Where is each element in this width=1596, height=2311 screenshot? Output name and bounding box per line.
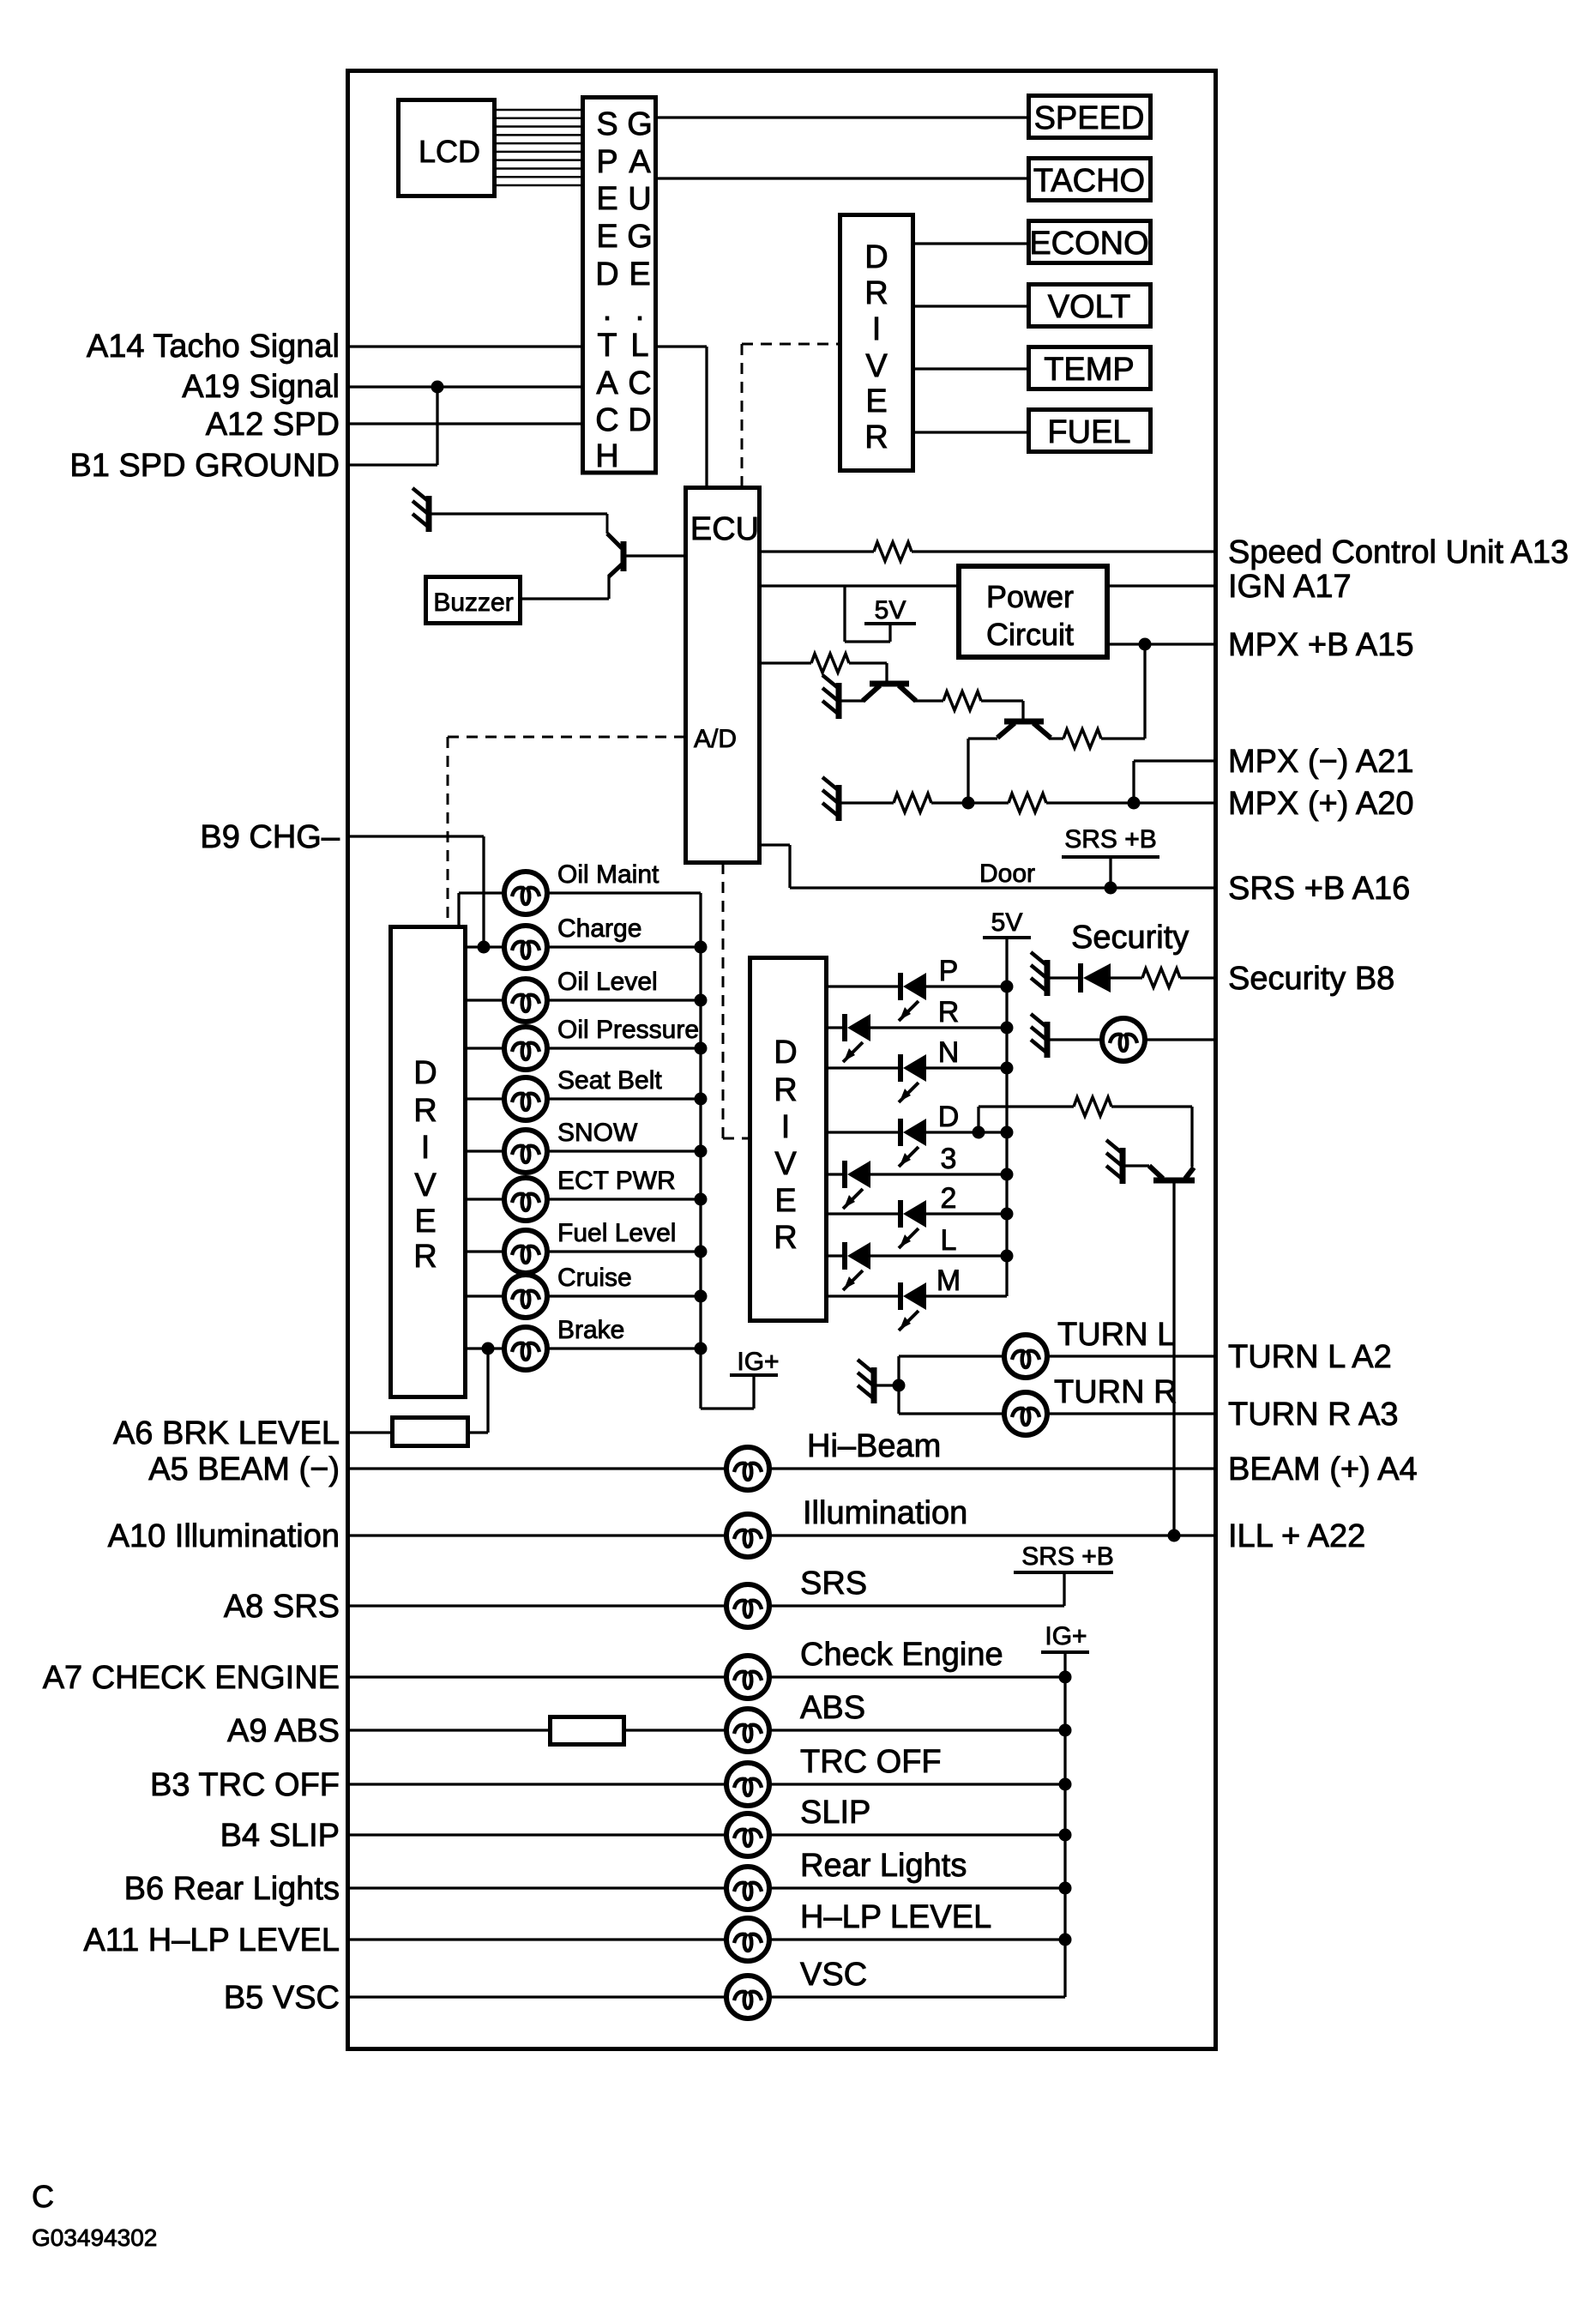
- wire LED L to bus: [870, 1254, 1007, 1257]
- junction A19/B1: [431, 381, 444, 394]
- svg-text:R: R: [864, 275, 888, 311]
- junction SRS +B: [1105, 882, 1117, 895]
- instrument cluster frame: [348, 71, 1216, 2049]
- lamp Hi-Beam: [726, 1447, 769, 1490]
- wire LED P to bus: [926, 985, 1007, 987]
- lamp H–LP LEVEL: [726, 1918, 769, 1961]
- svg-text:B9 CHG–: B9 CHG–: [200, 819, 340, 855]
- junction Oil Level / IG+ bus: [695, 994, 708, 1007]
- junction Oil Pressure / IG+ bus: [695, 1042, 708, 1055]
- svg-text:B3 TRC OFF: B3 TRC OFF: [150, 1767, 340, 1803]
- junction LED R bus: [1001, 1022, 1014, 1035]
- resistor R2: [811, 654, 849, 673]
- dashed wire driver to ECU: [742, 343, 840, 346]
- wire TURN L to frame: [1046, 1355, 1215, 1357]
- wire driver to Fuel Level lamp: [466, 1250, 505, 1252]
- svg-text:Oil Pressure: Oil Pressure: [557, 1016, 699, 1044]
- wire LED R to bus: [870, 1026, 1007, 1029]
- wire gauge to SPEED: [656, 116, 1028, 118]
- svg-text:3: 3: [941, 1143, 957, 1175]
- wire driver to Oil Level lamp: [466, 999, 505, 1001]
- gauge unit SPEED.TACH GAUGE.LCD: [583, 98, 656, 474]
- svg-text:SLIP: SLIP: [800, 1795, 870, 1831]
- junction turn lamp ground: [893, 1379, 906, 1392]
- ribbon cable LCD to gauge: [497, 110, 582, 185]
- lamp TRC OFF: [726, 1763, 769, 1806]
- Buzzer box: [426, 577, 521, 624]
- wire Brake lamp to IG+ bus: [546, 1347, 701, 1349]
- svg-text:Rear Lights: Rear Lights: [800, 1848, 967, 1884]
- wire driver to TEMP: [913, 367, 1028, 370]
- junction SLIP / IG+ bus: [1059, 1829, 1072, 1842]
- svg-text:MPX +B A15: MPX +B A15: [1228, 627, 1414, 663]
- junction Cruise / IG+ bus: [695, 1290, 708, 1303]
- driver IC U1 (gauge driver): [840, 215, 913, 471]
- ground Q2 emitter: [822, 675, 839, 719]
- 5V supply symbol S4: [983, 908, 1031, 938]
- ground Q4 base: [1106, 1140, 1123, 1184]
- wire diode to R9: [1111, 976, 1142, 979]
- svg-text:P: P: [939, 955, 959, 987]
- svg-text:E: E: [414, 1204, 436, 1240]
- svg-text:2: 2: [941, 1182, 957, 1215]
- TEMP gauge box: [1029, 347, 1151, 389]
- wire driver to ECONO: [913, 242, 1028, 244]
- wire ground to transistor Q1: [431, 512, 607, 515]
- ground turn lamps: [858, 1360, 874, 1403]
- wire ground to security lamp: [1049, 1038, 1103, 1041]
- svg-text:IG+: IG+: [1045, 1622, 1087, 1650]
- SPEED gauge box: [1029, 96, 1151, 138]
- wire LED M to bus: [926, 1294, 1007, 1297]
- svg-text:VOLT: VOLT: [1048, 289, 1130, 325]
- svg-text:D: D: [628, 402, 651, 438]
- lamp ABS: [726, 1709, 769, 1752]
- resistor R10 brake level sensor: [393, 1418, 468, 1446]
- junction LED 3 bus: [1001, 1168, 1014, 1181]
- lamp security: [1102, 1018, 1145, 1061]
- svg-text:ECONO: ECONO: [1029, 226, 1148, 262]
- svg-text:TRC OFF: TRC OFF: [800, 1744, 942, 1780]
- wire B6 Rear Lights: [350, 1886, 727, 1889]
- junction LED D bus: [1001, 1126, 1014, 1139]
- svg-text:R: R: [774, 1072, 797, 1108]
- wire ECU to SRS +B A16: [762, 843, 790, 846]
- lamp ECT PWR: [504, 1178, 547, 1221]
- SRS +B supply symbol S5: [1014, 1542, 1114, 1606]
- svg-text:A9 ABS: A9 ABS: [227, 1713, 340, 1749]
- junction SNOW / IG+ bus: [695, 1145, 708, 1158]
- LED R: [843, 1014, 870, 1062]
- svg-text:E: E: [774, 1183, 796, 1219]
- svg-text:R: R: [864, 419, 888, 456]
- wire A9 ABS: [350, 1729, 550, 1731]
- wire ground to Q4 base: [1124, 1164, 1149, 1167]
- wire B1 SPD ground: [350, 463, 437, 466]
- svg-text:G03494302: G03494302: [32, 2224, 157, 2251]
- svg-text:Circuit: Circuit: [986, 617, 1074, 652]
- svg-text:FUEL: FUEL: [1047, 414, 1130, 450]
- lamp Seat Belt: [504, 1077, 547, 1120]
- wire hi-beam to BEAM (+) A4: [768, 1467, 1215, 1469]
- svg-text:C: C: [32, 2179, 54, 2214]
- svg-text:V: V: [865, 348, 888, 384]
- wire IG+ lamp bus: [699, 893, 702, 1409]
- wire IGN A17: [762, 584, 959, 587]
- svg-text:E: E: [629, 256, 650, 293]
- svg-text:A5 BEAM (−): A5 BEAM (−): [148, 1451, 340, 1487]
- svg-text:MPX (−) A21: MPX (−) A21: [1228, 744, 1413, 780]
- svg-text:M: M: [937, 1264, 961, 1297]
- wire driver to Oil Maint lamp: [459, 891, 505, 894]
- wire gauge to ECU: [656, 345, 707, 347]
- wire IG+ bus bottom: [1063, 1677, 1066, 1997]
- wire driver to LED 3: [828, 1173, 845, 1175]
- SRS +B supply symbol S2: [1062, 825, 1159, 888]
- junction Check Engine / IG+ bus: [1059, 1671, 1072, 1684]
- junction Brake / A6 BRK LEVEL: [482, 1343, 495, 1355]
- svg-text:E: E: [596, 181, 617, 217]
- svg-text:5V: 5V: [991, 908, 1023, 937]
- junction MPX (+) / Q3: [962, 797, 975, 810]
- junction TRC OFF / IG+ bus: [1059, 1778, 1072, 1791]
- svg-text:SNOW: SNOW: [557, 1119, 638, 1147]
- wire ECU to speed control unit A13: [762, 550, 874, 552]
- wire B9 CHG to charge lamp: [350, 835, 484, 837]
- svg-text:TACHO: TACHO: [1033, 163, 1145, 199]
- svg-text:SRS +B: SRS +B: [1021, 1542, 1114, 1571]
- wire security lamp to frame: [1144, 1038, 1215, 1041]
- wire Oil Level lamp to IG+ bus: [546, 999, 701, 1001]
- svg-text:TURN L A2: TURN L A2: [1228, 1339, 1392, 1375]
- wire MPX +B to R4: [1143, 644, 1146, 739]
- resistor R1: [874, 542, 912, 561]
- svg-text:ECU: ECU: [690, 511, 759, 547]
- svg-text:Oil Level: Oil Level: [557, 968, 658, 996]
- svg-text:V: V: [774, 1146, 797, 1182]
- wire driver to Cruise lamp: [466, 1294, 505, 1297]
- wire driver to LED R: [828, 1026, 845, 1029]
- svg-text:5V: 5V: [875, 596, 906, 625]
- wire A12 SPD: [350, 422, 582, 425]
- lamp Check Engine: [726, 1656, 769, 1699]
- svg-text:D: D: [864, 239, 888, 275]
- LED L: [843, 1242, 870, 1290]
- svg-text:S: S: [596, 106, 617, 142]
- wire LED supply bus: [1005, 938, 1008, 1296]
- wire driver to Charge lamp: [466, 945, 505, 948]
- svg-text:Buzzer: Buzzer: [433, 588, 513, 617]
- wire driver to Brake lamp: [466, 1347, 505, 1349]
- svg-text:Security B8: Security B8: [1228, 961, 1394, 997]
- svg-text:A7 CHECK ENGINE: A7 CHECK ENGINE: [43, 1660, 340, 1696]
- svg-text:SRS +B A16: SRS +B A16: [1228, 871, 1410, 907]
- wire LED N to bus: [926, 1066, 1007, 1069]
- wire LED 2 to bus: [926, 1212, 1007, 1215]
- lamp Brake: [504, 1327, 547, 1370]
- svg-text:IGN A17: IGN A17: [1228, 569, 1352, 605]
- wire driver to LED M: [828, 1294, 900, 1297]
- transistor Q3: [997, 721, 1051, 738]
- svg-text:I: I: [872, 311, 882, 347]
- wire Q1 base to ECU: [625, 554, 685, 557]
- lamp SLIP: [726, 1813, 769, 1856]
- svg-text:.: .: [603, 292, 612, 328]
- wire Rear Lights lamp to IG+ bus: [768, 1886, 1065, 1889]
- transistor Q2: [863, 684, 916, 701]
- svg-text:SPEED: SPEED: [1034, 100, 1145, 136]
- wire ABS lamp to IG+ bus: [768, 1729, 1065, 1731]
- wire MPX (-) A21: [1134, 759, 1215, 762]
- svg-text:I: I: [421, 1130, 431, 1166]
- svg-text:R: R: [938, 996, 960, 1029]
- lamp Oil Pressure: [504, 1027, 547, 1070]
- junction LED 2 bus: [1001, 1208, 1014, 1221]
- svg-text:TEMP: TEMP: [1044, 352, 1135, 388]
- wire ground to turn lamps: [876, 1384, 899, 1386]
- wire Seat Belt lamp to IG+ bus: [546, 1097, 701, 1100]
- junction MPX (+) / MPX (-): [1128, 797, 1141, 810]
- svg-text:D: D: [413, 1055, 437, 1091]
- wire MPX +B A15: [1107, 643, 1215, 645]
- svg-text:Security: Security: [1071, 920, 1189, 956]
- svg-text:C: C: [628, 365, 651, 401]
- svg-text:A11 H–LP LEVEL: A11 H–LP LEVEL: [83, 1922, 340, 1958]
- svg-text:L: L: [630, 328, 648, 364]
- svg-text:A10 Illumination: A10 Illumination: [108, 1518, 340, 1554]
- resistor R4: [1063, 729, 1101, 748]
- junction Seat Belt / IG+ bus: [695, 1093, 708, 1106]
- wire D row to resistor R7: [977, 1107, 979, 1132]
- svg-text:Illumination: Illumination: [803, 1495, 967, 1531]
- svg-text:D: D: [595, 256, 618, 293]
- svg-text:R: R: [774, 1220, 797, 1256]
- wire illumination to ILL + A22: [768, 1534, 1215, 1536]
- svg-text:H–LP LEVEL: H–LP LEVEL: [800, 1899, 991, 1935]
- lamp TURN R: [1004, 1392, 1047, 1435]
- svg-text:G: G: [627, 219, 653, 255]
- resistor R6: [1009, 793, 1046, 812]
- resistor R9: [1142, 968, 1180, 987]
- LED D: [899, 1119, 926, 1167]
- wire A8 SRS: [350, 1604, 727, 1607]
- wire driver to LED D: [828, 1131, 900, 1133]
- svg-text:H: H: [595, 438, 618, 474]
- svg-text:Brake: Brake: [557, 1316, 624, 1344]
- lamp Oil Level: [504, 979, 547, 1022]
- ground security lamp: [1031, 1014, 1047, 1058]
- lamp Illumination: [726, 1514, 769, 1557]
- driver IC U4 (warning lamp driver): [391, 927, 466, 1397]
- svg-text:SRS: SRS: [800, 1566, 867, 1602]
- wire Charge lamp to IG+ bus: [546, 945, 701, 948]
- junction Rear Lights / IG+ bus: [1059, 1882, 1072, 1895]
- dashed wire A/D: [448, 736, 685, 739]
- svg-text:Charge: Charge: [557, 914, 641, 943]
- svg-text:ECT PWR: ECT PWR: [557, 1167, 676, 1195]
- svg-text:LCD: LCD: [419, 134, 480, 169]
- driver IC U5 (shift indicator driver): [750, 958, 827, 1321]
- wire buzzer to Q1 emitter: [607, 575, 610, 599]
- wire driver to SNOW lamp: [466, 1149, 505, 1152]
- LED P: [899, 973, 926, 1021]
- lamp Rear Lights: [726, 1867, 769, 1910]
- svg-text:R: R: [413, 1093, 437, 1129]
- svg-text:E: E: [865, 383, 887, 419]
- LED 3: [843, 1161, 870, 1209]
- resistor R7: [1074, 1097, 1111, 1116]
- svg-text:ILL + A22: ILL + A22: [1228, 1518, 1365, 1554]
- lamp TURN L: [1004, 1335, 1047, 1378]
- junction LED P bus: [1001, 981, 1014, 993]
- svg-text:Speed Control Unit A13: Speed Control Unit A13: [1228, 534, 1569, 570]
- junction ILL / Q4: [1168, 1530, 1181, 1542]
- wire B5 VSC: [350, 1995, 727, 1998]
- svg-text:G: G: [627, 106, 653, 142]
- svg-text:A19 Signal: A19 Signal: [182, 369, 340, 405]
- wire Oil Pressure lamp to IG+ bus: [546, 1047, 701, 1049]
- wire A11 H–LP LEVEL: [350, 1938, 727, 1940]
- svg-text:Cruise: Cruise: [557, 1264, 632, 1292]
- svg-text:D: D: [774, 1035, 797, 1071]
- svg-text:MPX (+) A20: MPX (+) A20: [1228, 786, 1413, 822]
- transistor Q4: [1149, 1166, 1195, 1180]
- svg-text:SRS +B: SRS +B: [1064, 825, 1157, 854]
- wire B3 TRC OFF: [350, 1783, 727, 1785]
- junction LED N bus: [1001, 1062, 1014, 1075]
- wire Cruise lamp to IG+ bus: [546, 1294, 701, 1297]
- Power Circuit box U3: [959, 566, 1107, 657]
- svg-text:E: E: [596, 219, 617, 255]
- IG+ supply symbol S6: [1041, 1622, 1089, 1677]
- wire ground to Q2: [840, 699, 864, 702]
- wire SNOW lamp to IG+ bus: [546, 1149, 701, 1152]
- LCD box: [399, 100, 495, 196]
- svg-text:TURN R A3: TURN R A3: [1228, 1397, 1398, 1433]
- VOLT gauge box: [1029, 285, 1151, 327]
- junction D / Q4 resistor: [973, 1126, 985, 1139]
- wire driver to LED L: [828, 1254, 845, 1257]
- svg-text:A: A: [629, 144, 651, 180]
- svg-text:A6 BRK LEVEL: A6 BRK LEVEL: [113, 1415, 340, 1451]
- lamp Cruise: [504, 1275, 547, 1318]
- wire A10 illumination: [350, 1534, 727, 1536]
- junction ECT PWR / IG+ bus: [695, 1193, 708, 1206]
- wire Q2 collector to R3: [914, 699, 943, 702]
- wire Q3 collector to R4: [1049, 737, 1063, 739]
- resistor R3: [943, 691, 981, 710]
- svg-text:Seat Belt: Seat Belt: [557, 1066, 662, 1095]
- svg-text:B6 Rear Lights: B6 Rear Lights: [124, 1871, 340, 1907]
- svg-text:A12 SPD: A12 SPD: [206, 407, 340, 443]
- lamp VSC: [726, 1976, 769, 2018]
- svg-text:B4 SLIP: B4 SLIP: [220, 1818, 340, 1854]
- wire driver to VOLT: [913, 305, 1028, 307]
- junction H–LP LEVEL / IG+ bus: [1059, 1934, 1072, 1946]
- svg-text:.: .: [635, 292, 645, 328]
- svg-text:B1 SPD GROUND: B1 SPD GROUND: [69, 448, 340, 484]
- wire A19 signal: [350, 385, 582, 388]
- resistor R11 ABS: [551, 1717, 624, 1745]
- LED 2: [899, 1200, 926, 1248]
- lamp SRS: [726, 1584, 769, 1627]
- wire H–LP LEVEL lamp to IG+ bus: [768, 1938, 1065, 1940]
- wire Q4 emitter to ILL: [1172, 1182, 1175, 1536]
- svg-text:U: U: [628, 181, 651, 217]
- svg-text:Fuel Level: Fuel Level: [557, 1219, 676, 1247]
- svg-text:TURN L: TURN L: [1057, 1317, 1175, 1353]
- lamp Charge: [504, 926, 547, 968]
- wire ECU to Q2 base: [762, 661, 811, 664]
- svg-text:N: N: [938, 1036, 960, 1069]
- wire LED 3 to bus: [870, 1173, 1007, 1175]
- svg-text:L: L: [941, 1224, 957, 1257]
- svg-text:I: I: [781, 1109, 791, 1145]
- wire A7 CHECK ENGINE: [350, 1675, 727, 1678]
- transistor Q1 buzzer driver: [607, 514, 623, 576]
- wire Check Engine lamp to IG+ bus: [768, 1675, 1065, 1678]
- junction ABS / IG+ bus: [1059, 1724, 1072, 1737]
- lamp Oil Maint: [504, 872, 547, 914]
- junction Brake / IG+ bus: [695, 1343, 708, 1355]
- svg-text:V: V: [414, 1168, 437, 1204]
- ECU block U2: [686, 488, 760, 863]
- TACHO gauge box: [1029, 159, 1151, 201]
- wire R7 to Q4 collector: [1111, 1105, 1192, 1107]
- lamp Fuel Level: [504, 1230, 547, 1273]
- svg-text:Check Engine: Check Engine: [800, 1637, 1003, 1673]
- wire Fuel Level lamp to IG+ bus: [546, 1250, 701, 1252]
- svg-text:A8 SRS: A8 SRS: [224, 1589, 340, 1625]
- 5V supply symbol S1: [845, 586, 916, 642]
- wire TRC OFF lamp to IG+ bus: [768, 1783, 1065, 1785]
- dashed wire ECU to driver U4: [722, 863, 725, 1138]
- junction B9 CHG / charge lamp: [478, 941, 491, 954]
- wire driver to LED N: [828, 1066, 900, 1069]
- wire SLIP lamp to IG+ bus: [768, 1833, 1065, 1836]
- resistor R5: [894, 793, 931, 812]
- wire A14 tacho signal: [350, 345, 582, 347]
- lamp SNOW: [504, 1130, 547, 1173]
- LED N: [899, 1054, 926, 1102]
- wire gauge to TACHO: [656, 177, 1028, 179]
- wire VSC lamp to IG+ bus: [768, 1995, 1065, 1998]
- junction Fuel Level / IG+ bus: [695, 1246, 708, 1258]
- junction Charge / IG+ bus: [695, 941, 708, 954]
- wire TURN L A2: [899, 1355, 1005, 1357]
- wire driver to Oil Pressure lamp: [466, 1047, 505, 1049]
- wire A5 BEAM: [350, 1467, 727, 1469]
- junction LED L bus: [1001, 1250, 1014, 1263]
- wire MPX (+) A20: [840, 801, 894, 804]
- svg-text:A/D: A/D: [694, 725, 737, 753]
- svg-text:A: A: [596, 365, 618, 401]
- ground MPX (+): [822, 777, 839, 821]
- svg-text:D: D: [938, 1101, 960, 1133]
- wire SRS lamp to SRS +B: [768, 1604, 1064, 1607]
- wire driver to LED P: [828, 985, 900, 987]
- svg-text:P: P: [596, 144, 617, 180]
- svg-text:IG+: IG+: [737, 1348, 779, 1376]
- wire ECT PWR lamp to IG+ bus: [546, 1198, 701, 1200]
- wire driver to FUEL: [913, 431, 1028, 433]
- wire driver to ECT PWR lamp: [466, 1198, 505, 1200]
- wire driver to LED 2: [828, 1212, 900, 1215]
- wire driver to Seat Belt lamp: [466, 1097, 505, 1100]
- svg-text:TURN R: TURN R: [1054, 1374, 1177, 1410]
- LED M: [899, 1282, 926, 1330]
- FUEL gauge box: [1029, 410, 1151, 452]
